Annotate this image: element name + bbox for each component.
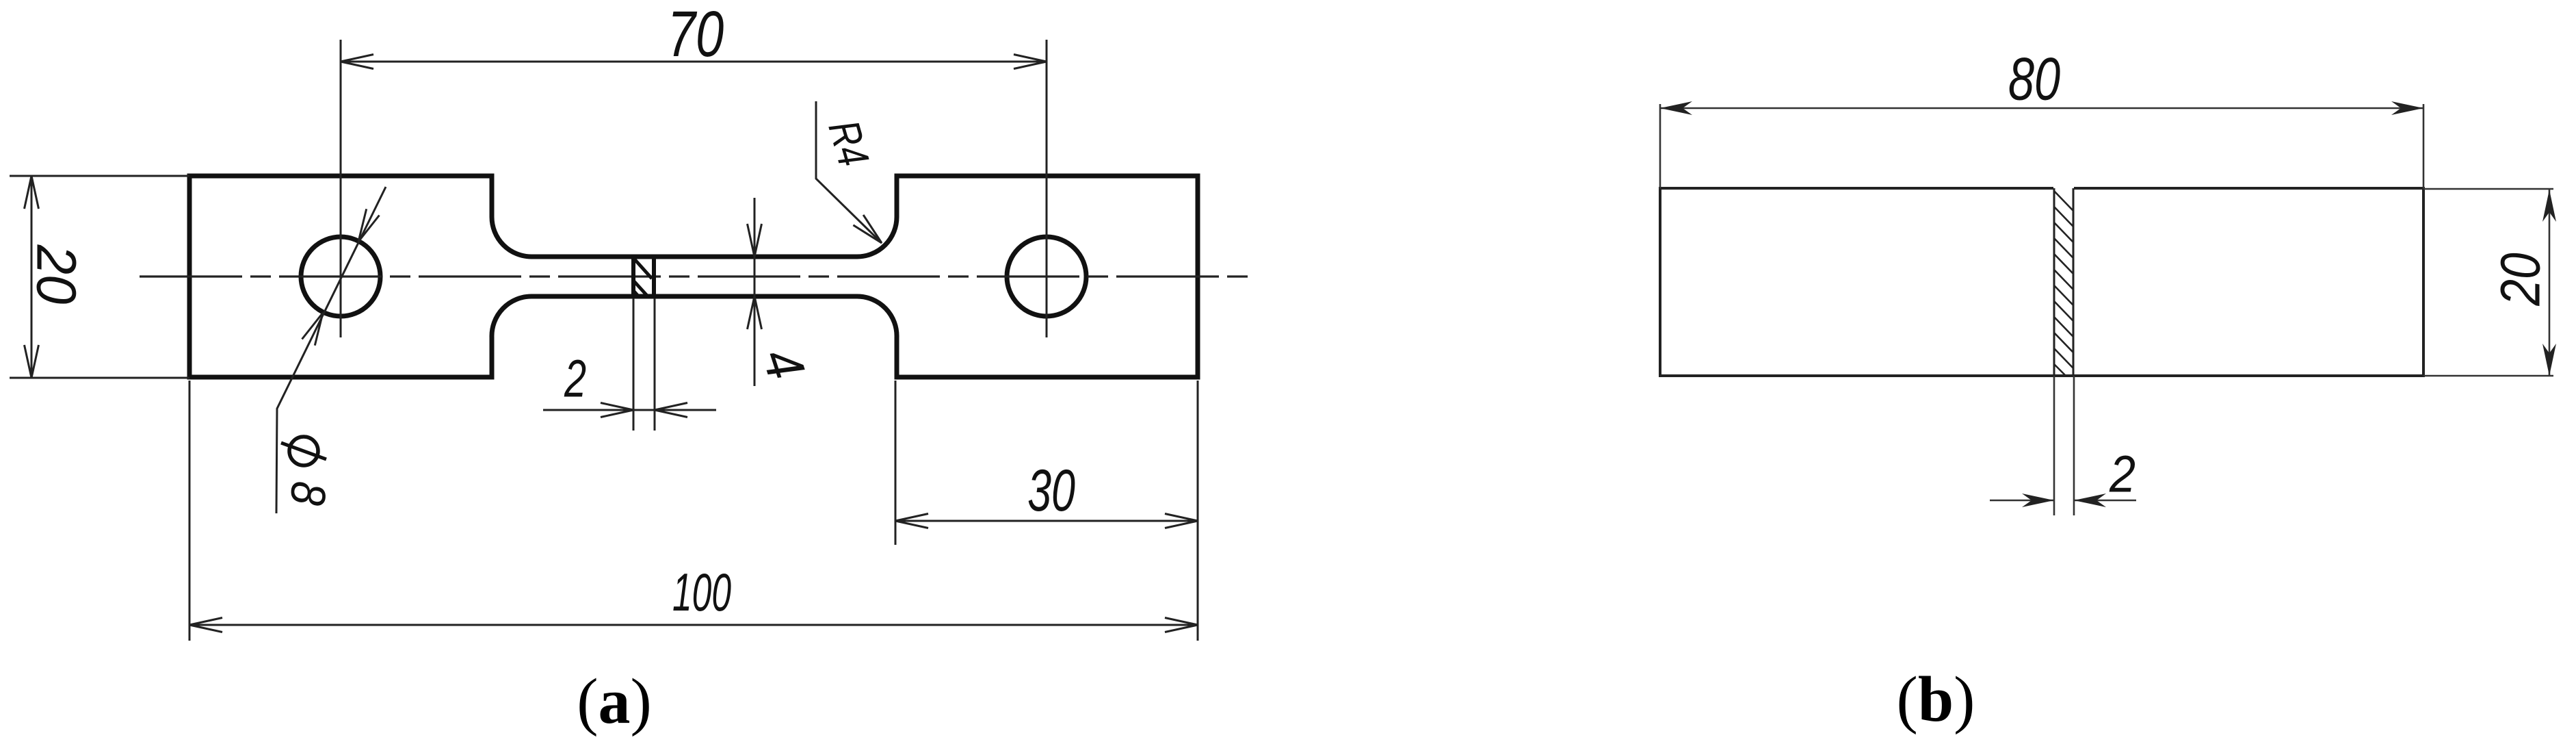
- text Φ8: diameter symbol circle: [289, 437, 318, 465]
- dimension R4: leader: [816, 101, 882, 243]
- svg-text:70: 70: [668, 0, 724, 70]
- specimen outline (a): [189, 176, 1198, 377]
- svg-text:20: 20: [2489, 253, 2552, 306]
- dimension 70: right arrow: [1014, 55, 1047, 69]
- dimension Φ8: lower arrow: [302, 313, 324, 346]
- band right edge (b): [2073, 188, 2075, 376]
- dimension Φ8: upper arrow: [358, 209, 380, 242]
- dimension 20 (b): extension lines: [2423, 188, 2553, 190]
- dimension 80: filled arrows: [1660, 101, 1692, 115]
- dimension 2 (b): extension lines: [2053, 376, 2055, 515]
- svg-text:(a): (a): [577, 666, 652, 737]
- dimension 2 (b): filled arrows: [2022, 493, 2054, 507]
- dimension 70: line: [341, 61, 1047, 63]
- left hole vertical centerline / 70-dim extension: [340, 40, 342, 337]
- band left edge (b): [2053, 188, 2055, 376]
- dimension 2 (a): extension lines: [633, 298, 635, 431]
- dimension 20 (a): arrows: [25, 176, 39, 209]
- right hole vertical centerline / 70-dim extension: [1046, 40, 1048, 337]
- dimension 80: extension lines: [1659, 104, 1661, 188]
- dimension 80: line: [1660, 107, 2423, 110]
- svg-text:30: 30: [1027, 457, 1075, 523]
- svg-text:2: 2: [2109, 446, 2135, 503]
- dimension 100: extension line left: [189, 381, 191, 641]
- dimension 20 (a): extension lines: [10, 175, 189, 177]
- dimension 20 (a): line: [31, 176, 33, 378]
- notch band edges (a): [631, 255, 635, 298]
- dimension 70: left arrow: [341, 55, 373, 69]
- hole left Φ8: [301, 237, 380, 316]
- dimension 30: line: [895, 520, 1198, 522]
- dimension 100: arrows: [189, 618, 222, 632]
- svg-text:100: 100: [672, 563, 731, 622]
- dimension Φ8: leader line: [276, 187, 386, 513]
- hole right Φ8: [1007, 237, 1086, 316]
- dimension 2 (b): line tails: [1990, 500, 2054, 502]
- dimension 2 (a): arrows (outside): [601, 403, 633, 418]
- dimension 2 (a): line with tails: [543, 409, 716, 411]
- dimension 4: line: [754, 198, 756, 386]
- svg-text:20: 20: [25, 244, 88, 305]
- svg-text:(b): (b): [1897, 664, 1975, 735]
- dimension 30: extension lines: [895, 381, 897, 545]
- dimension 100: line: [189, 624, 1198, 626]
- band hatching (b): [2054, 191, 2073, 376]
- dimension R4: arrow: [853, 215, 882, 243]
- svg-text:80: 80: [2008, 46, 2060, 113]
- dimension 20 (b): line: [2549, 189, 2551, 376]
- notch hatching (a): [634, 259, 652, 279]
- text Φ8: diameter symbol slash: [281, 443, 326, 459]
- horizontal centerline: [140, 275, 1248, 277]
- svg-text:8: 8: [280, 479, 336, 507]
- dimension 30: arrows: [895, 514, 928, 528]
- svg-text:2: 2: [564, 350, 586, 409]
- specimen outline (b): [1660, 188, 2423, 376]
- dimension 20 (b): filled arrows: [2542, 190, 2556, 222]
- dimension 4: arrows (outside): [748, 224, 762, 257]
